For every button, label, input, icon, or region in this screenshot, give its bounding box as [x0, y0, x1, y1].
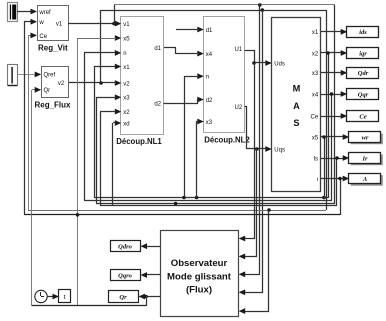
scope block Qr [109, 291, 139, 303]
wire x5 into NL1 [78, 38, 116, 40]
junction net d1 on bus [174, 202, 178, 206]
junction T1 observer tap [258, 3, 262, 7]
wire x1 into NL1 [94, 66, 116, 68]
wire T2 drop to observer in4 [242, 11, 263, 293]
junction B-Ce observer tap [267, 208, 271, 212]
svg-text:x5: x5 [312, 135, 319, 141]
svg-text:d1: d1 [154, 46, 161, 52]
svg-text:Uds: Uds [274, 61, 285, 67]
wire bus B-x3 [96, 203, 335, 205]
svg-text:Ce: Ce [311, 114, 319, 120]
junction x2 row tap [326, 51, 330, 55]
riser B-x3 to NL1 x3 [97, 98, 117, 204]
junction Uds tap [252, 61, 256, 65]
wire NL2 x3 feeder [197, 122, 199, 198]
junction Qr branch [144, 295, 148, 299]
svg-text:Mode glissant: Mode glissant [167, 272, 232, 283]
scope block wr [349, 132, 383, 145]
wire MAS output row Qqr [321, 94, 342, 96]
svg-text:Observateur: Observateur [171, 258, 228, 269]
riser Qr feedback to RegFlux [31, 90, 33, 306]
junction B-n NL2 n feeder [182, 196, 186, 200]
scope block ids [347, 27, 379, 38]
svg-text:v1: v1 [56, 21, 63, 27]
svg-text:M: M [293, 84, 301, 94]
svg-text:x3: x3 [206, 120, 213, 126]
svg-text:xd: xd [123, 121, 129, 127]
wire clock to t [47, 296, 55, 298]
scope block Qdr [347, 68, 379, 79]
svg-text:d2: d2 [154, 102, 161, 108]
svg-text:x1: x1 [312, 30, 319, 36]
wire U1 to Uds [245, 51, 267, 63]
wire NL2 n feeder [185, 77, 199, 198]
svg-text:A: A [362, 176, 368, 183]
drop x5 row to B-n [324, 137, 326, 198]
riser B-n right to x2 row [328, 53, 330, 198]
riser B-x1 right to x4 row [331, 94, 333, 200]
riser B-w right to theta row [340, 178, 342, 215]
svg-text:x4: x4 [206, 52, 213, 58]
svg-text:v1: v1 [123, 22, 130, 28]
wire T2 drop right [326, 10, 328, 210]
wire bus B-w (dark) [24, 214, 340, 216]
svg-text:Uqs: Uqs [274, 147, 285, 153]
scope block iqr [347, 48, 379, 59]
svg-text:w: w [38, 20, 44, 26]
svg-text:x4: x4 [312, 92, 319, 98]
clock block [35, 290, 47, 302]
svg-text:wref: wref [38, 10, 51, 16]
junction x4 row tap [330, 92, 334, 96]
wire net d1 step [175, 48, 177, 54]
block Observateur Mode glissant (Flux) [161, 231, 239, 317]
wire Qr branch riser [146, 296, 148, 306]
svg-text:x3: x3 [312, 71, 319, 77]
wire v1 RegVit to NL1 [68, 23, 116, 25]
wire T1 drop to observer in3 [242, 5, 260, 275]
svg-text:U2: U2 [235, 105, 243, 111]
svg-text:d1: d1 [206, 28, 213, 34]
svg-text:x2: x2 [123, 110, 130, 116]
svg-text:iqr: iqr [359, 50, 367, 57]
port arrow MAS Uqs [265, 146, 272, 152]
scope block Qdro [111, 241, 141, 252]
scope block Ce [347, 111, 379, 122]
wire observer out Qqro [144, 274, 160, 276]
wire T1 drop right [334, 5, 336, 204]
svg-text:wr: wr [362, 134, 369, 141]
svg-text:x1: x1 [123, 65, 130, 71]
port arrows Decoup.NL1 inputs [115, 21, 122, 27]
wire B-Ce drop to observer in5 [242, 211, 269, 312]
scope block Qqro [111, 270, 141, 281]
riser B-w to RegVit w [25, 22, 33, 215]
wire MAS output row wr [321, 136, 344, 138]
wire bus B-x2 [100, 205, 337, 207]
block t (to workspace) [59, 290, 71, 303]
source block flux reference (icon) [8, 65, 18, 86]
wire v2 RegFlux to NL1 [69, 82, 116, 84]
junction B-n x5row drop [322, 196, 326, 200]
wire MAS output row ids [321, 31, 342, 33]
wire xd into NL1 [113, 122, 116, 124]
wire Qr into RegFlux [32, 89, 38, 91]
svg-text:Ir: Ir [361, 155, 368, 162]
scope block Ir [349, 153, 383, 166]
riser x2 feeder [100, 112, 102, 206]
svg-text:A: A [293, 101, 300, 111]
wire wref [17, 11, 33, 13]
wire d2 NL1 to NL2 d2 [164, 100, 199, 104]
svg-text:S: S [293, 118, 299, 128]
svg-text:v2: v2 [58, 81, 65, 87]
svg-text:t: t [64, 294, 66, 301]
svg-text:Is: Is [314, 156, 319, 162]
wire bus B-n [94, 197, 328, 199]
wire MAS output row Ir [321, 158, 344, 160]
wire Uqs tap to observer in2 [242, 149, 257, 257]
svg-text:x2: x2 [312, 51, 319, 57]
wire n into NL1 [84, 52, 116, 54]
wire MAS output row iqr [321, 52, 342, 54]
wire d1 NL1 out [164, 47, 176, 49]
scope block A [349, 174, 383, 186]
svg-text:n: n [123, 51, 126, 57]
wire bus B-x1 [84, 200, 332, 202]
svg-text:Reg_Flux: Reg_Flux [34, 101, 71, 110]
wire into NL2 x4 [176, 53, 199, 55]
wire Qr bottom line [32, 305, 146, 307]
svg-text:n: n [206, 75, 209, 81]
riser B-x2 right to Is row [336, 158, 338, 206]
block Decoup.NL1 (nonlinear decoupling 1) [121, 17, 164, 135]
junction x5 row tap [322, 135, 326, 139]
block MAS (induction machine) [272, 18, 321, 192]
svg-text:Qdr: Qdr [358, 70, 369, 77]
block Decoup.NL2 (nonlinear decoupling 2) [204, 17, 245, 133]
wire observer out Qr [142, 296, 160, 298]
junction Is row tap [335, 156, 339, 160]
junction B-n NL2 x3 feeder [195, 196, 199, 200]
wire MAS output row Qdr [321, 72, 342, 74]
svg-text:Qr: Qr [119, 294, 127, 301]
junction x5 feeder on B-w [76, 213, 80, 217]
wire into NL2 d1 [176, 29, 199, 31]
svg-text:v2: v2 [123, 81, 130, 87]
junction theta row tap [338, 177, 342, 181]
riser v2 tap to T2 [100, 10, 102, 83]
svg-text:(Flux): (Flux) [186, 285, 212, 296]
svg-text:Ce: Ce [359, 113, 366, 120]
wire MAS output row A [321, 178, 344, 180]
wire Qref [17, 74, 38, 76]
svg-text:Qr: Qr [44, 88, 51, 94]
block Reg_Flux (flux regulator) [42, 67, 69, 98]
svg-text:ids: ids [359, 29, 367, 36]
svg-text:Qdro: Qdro [118, 244, 132, 251]
svg-text:x5: x5 [123, 36, 130, 42]
source block speed reference (striped icon) [8, 3, 18, 22]
svg-text:d2: d2 [206, 98, 213, 104]
junction v1 tap [112, 22, 116, 26]
wire bus B-Ce [28, 210, 326, 212]
riser xd feeder [112, 123, 114, 206]
block Reg_Vit (speed regulator) [38, 6, 69, 41]
svg-text:x3: x3 [123, 96, 130, 102]
svg-text:Qqr: Qqr [358, 91, 369, 98]
svg-text:U1: U1 [235, 47, 243, 53]
junction T2 observer tap [261, 8, 265, 12]
port arrows Decoup.NL2 inputs [197, 27, 204, 33]
wire top bus T1 [114, 4, 335, 6]
wire observer out Qdro [144, 246, 160, 248]
junction Uqs tap [255, 147, 259, 151]
wire Uds tap to observer in1 [242, 63, 255, 239]
port arrow MAS Uds [265, 60, 272, 66]
vertical x5 feeder [77, 38, 79, 306]
svg-text:Découp.NL1: Découp.NL1 [116, 137, 162, 146]
junction v2 tap [99, 81, 103, 85]
riser v1 tap to T1 [114, 5, 116, 24]
svg-text:Qqro: Qqro [118, 272, 132, 279]
riser n feeder [84, 53, 86, 200]
riser x1 feeder [94, 66, 96, 198]
wire x2 into NL1 [100, 111, 116, 113]
scope block Qqr [347, 89, 379, 100]
wire top bus T2 [101, 10, 326, 12]
svg-text:Ce: Ce [39, 34, 47, 40]
riser B-Ce to RegVit Ce [29, 36, 33, 211]
wire MAS output row Ce [321, 116, 342, 118]
svg-text:Qref: Qref [44, 73, 56, 79]
svg-text:Découp.NL2: Découp.NL2 [204, 136, 250, 145]
wire U2 to Uqs [245, 107, 267, 149]
svg-text:Reg_Vit: Reg_Vit [38, 44, 68, 53]
